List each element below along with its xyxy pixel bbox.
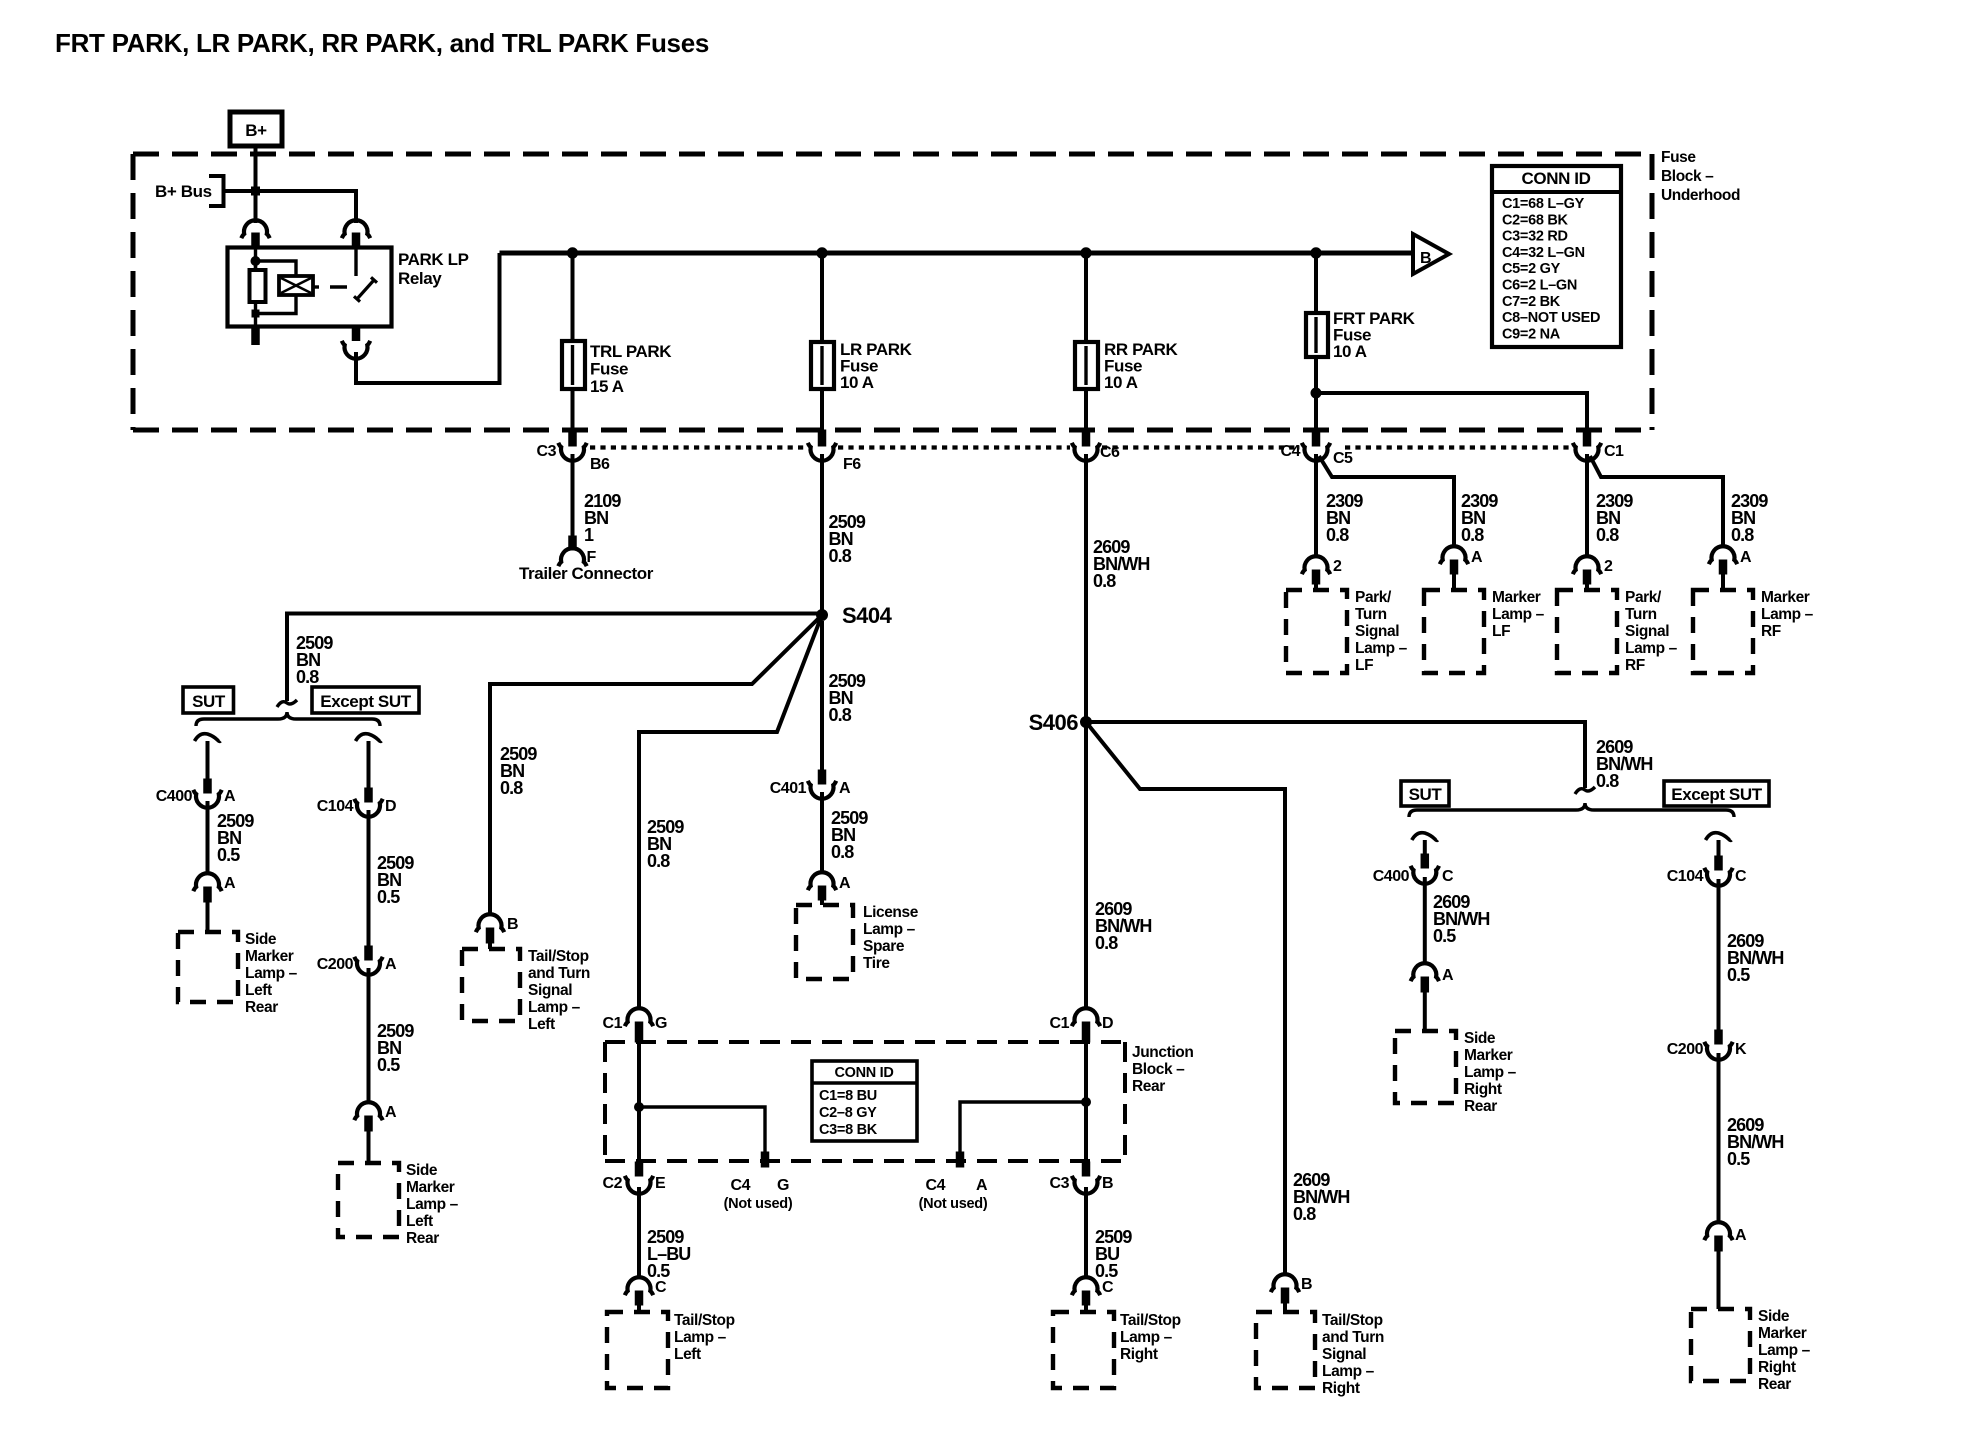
svg-text:S404: S404 bbox=[842, 603, 893, 628]
svg-text:A: A bbox=[1471, 549, 1483, 566]
svg-text:RF: RF bbox=[1761, 623, 1781, 640]
svg-text:Marker: Marker bbox=[1761, 589, 1810, 606]
junction at FRT PARK fuse bbox=[1311, 248, 1321, 258]
svg-text:B+ Bus: B+ Bus bbox=[155, 182, 212, 201]
svg-text:A: A bbox=[1442, 967, 1454, 984]
svg-text:C1: C1 bbox=[1604, 443, 1624, 460]
svg-text:C104: C104 bbox=[317, 798, 354, 815]
wire C3 to tail/stop lamp right, circuit 2509 bbox=[1084, 1187, 1088, 1279]
wire to not-used pin C4 A bbox=[960, 1102, 1086, 1153]
svg-text:Marker: Marker bbox=[1758, 1325, 1807, 1342]
relay internal: coil to switch dashed link bbox=[313, 285, 319, 288]
Except SUT option box bbox=[312, 687, 419, 713]
relay resistor R1 bbox=[254, 261, 257, 270]
junction at RR PARK fuse bbox=[1081, 248, 1091, 258]
relay switch fixed contact wire bbox=[354, 248, 357, 276]
junction in block right bbox=[1082, 1098, 1091, 1107]
svg-text:Fuse: Fuse bbox=[1661, 149, 1696, 166]
svg-text:D: D bbox=[1102, 1015, 1113, 1032]
svg-text:Turn: Turn bbox=[1355, 606, 1387, 623]
svg-text:C4: C4 bbox=[731, 1177, 751, 1194]
svg-text:PARK LP: PARK LP bbox=[398, 250, 469, 269]
connector F6 bbox=[818, 430, 826, 446]
lamp: Tail/Stop and Turn Signal Lamp - Right bbox=[1256, 1312, 1315, 1388]
svg-text:Rear: Rear bbox=[1132, 1078, 1165, 1095]
wire S404 branch to tail/stop left lamp bbox=[490, 615, 822, 916]
svg-text:CONN ID: CONN ID bbox=[1522, 169, 1591, 188]
svg-text:0.5: 0.5 bbox=[217, 845, 240, 865]
svg-text:2: 2 bbox=[1333, 558, 1342, 575]
svg-text:10 A: 10 A bbox=[840, 373, 874, 392]
junction block connector C3 pin B bbox=[1082, 1162, 1090, 1176]
relay internal: resistor bottom wire bbox=[254, 302, 257, 327]
svg-text:C: C bbox=[1102, 1279, 1114, 1296]
wire to not-used pin C4 G bbox=[639, 1107, 765, 1153]
svg-text:0.8: 0.8 bbox=[647, 851, 670, 871]
lamp: Side Marker Lamp - Right Rear (Except SUT) bbox=[1691, 1309, 1750, 1381]
wire Except SUT branch to C104 bbox=[367, 741, 371, 789]
lamp connector A bbox=[1709, 546, 1737, 564]
svg-text:0.8: 0.8 bbox=[1293, 1204, 1316, 1224]
lamp connector C bbox=[1072, 1277, 1100, 1295]
svg-text:Rear: Rear bbox=[245, 999, 278, 1016]
svg-text:B: B bbox=[1102, 1175, 1113, 1192]
lamp: Tail/Stop Lamp - Right bbox=[1053, 1312, 1114, 1388]
svg-text:Lamp –: Lamp – bbox=[1464, 1064, 1517, 1081]
wire TRL PARK fuse to connector C3 bbox=[571, 389, 575, 430]
svg-text:C401: C401 bbox=[770, 780, 807, 797]
wire S406 branch to tail/stop and turn lamp right bbox=[1086, 722, 1285, 1276]
wire C1 diagonal to marker lamp RF, circuit 2309 bbox=[1590, 456, 1723, 548]
svg-text:C2: C2 bbox=[603, 1175, 623, 1192]
lamp connector A bbox=[808, 872, 836, 890]
splice S406 bbox=[1081, 717, 1092, 728]
svg-text:Tail/Stop: Tail/Stop bbox=[1322, 1312, 1383, 1329]
wire bus to RR PARK fuse bbox=[1084, 253, 1088, 342]
svg-text:C2–8 GY: C2–8 GY bbox=[819, 1105, 877, 1121]
svg-text:10 A: 10 A bbox=[1333, 342, 1367, 361]
wire SUT branch to C400 bbox=[206, 741, 210, 780]
dotted connector strip bbox=[590, 445, 806, 449]
relay pin 3 stub (coil ground) bbox=[252, 327, 260, 345]
svg-text:Signal: Signal bbox=[1625, 623, 1669, 640]
svg-text:A: A bbox=[839, 875, 851, 892]
wire from B+ down to relay pin 1 bbox=[254, 147, 258, 223]
wire through junction block left bbox=[637, 1042, 641, 1163]
svg-text:G: G bbox=[655, 1015, 667, 1032]
svg-text:C: C bbox=[1735, 868, 1747, 885]
svg-text:S406: S406 bbox=[1029, 710, 1079, 735]
svg-text:Left: Left bbox=[674, 1346, 701, 1363]
lamp connector B bbox=[1271, 1274, 1299, 1292]
lamp connector A bbox=[1704, 1222, 1732, 1240]
svg-text:1: 1 bbox=[584, 525, 594, 545]
svg-text:C2=68 BK: C2=68 BK bbox=[1502, 212, 1569, 228]
svg-text:FRT PARK, LR PARK, RR PARK, an: FRT PARK, LR PARK, RR PARK, and TRL PARK… bbox=[55, 28, 709, 58]
svg-text:C5=2 GY: C5=2 GY bbox=[1502, 261, 1561, 277]
svg-text:Left: Left bbox=[245, 982, 272, 999]
svg-text:Trailer Connector: Trailer Connector bbox=[519, 564, 654, 583]
wire C401 to license lamp bbox=[820, 792, 824, 874]
svg-text:RF: RF bbox=[1625, 657, 1645, 674]
svg-text:B+: B+ bbox=[245, 121, 267, 140]
wire F6 to splice S404, circuit 2509 bbox=[820, 454, 824, 615]
wire FRT PARK fuse to connector C4 bbox=[1314, 357, 1318, 430]
svg-text:0.5: 0.5 bbox=[377, 1055, 400, 1075]
svg-text:C1=68 L–GY: C1=68 L–GY bbox=[1502, 196, 1585, 212]
svg-text:0.8: 0.8 bbox=[1461, 525, 1484, 545]
connector C1 (front) bbox=[1583, 430, 1591, 446]
power symbol B+ bbox=[230, 112, 282, 146]
svg-text:Lamp –: Lamp – bbox=[863, 921, 916, 938]
svg-text:0.5: 0.5 bbox=[647, 1261, 670, 1281]
svg-text:A: A bbox=[224, 788, 236, 805]
svg-text:0.8: 0.8 bbox=[1731, 525, 1754, 545]
svg-text:C200: C200 bbox=[1667, 1041, 1704, 1058]
connector C200 pin A bbox=[365, 946, 373, 960]
lamp: Marker Lamp - LF bbox=[1424, 590, 1484, 673]
svg-text:A: A bbox=[1740, 549, 1752, 566]
lamp connector A bbox=[1411, 963, 1439, 981]
svg-text:Right: Right bbox=[1464, 1081, 1502, 1098]
junction at resistor bottom bbox=[252, 310, 259, 317]
svg-text:C6: C6 bbox=[1100, 444, 1120, 461]
trailer connector terminal F bbox=[569, 536, 577, 550]
wire C104 to C200, circuit 2509 bbox=[367, 810, 371, 947]
svg-text:0.5: 0.5 bbox=[1727, 1149, 1750, 1169]
svg-text:License: License bbox=[863, 904, 919, 921]
svg-text:Park/: Park/ bbox=[1625, 589, 1662, 606]
svg-text:Except SUT: Except SUT bbox=[320, 692, 411, 711]
svg-text:Lamp –: Lamp – bbox=[1355, 640, 1408, 657]
svg-text:0.8: 0.8 bbox=[1093, 571, 1116, 591]
relay switch blade bbox=[354, 277, 377, 301]
wire relay switch output to bus bbox=[356, 253, 500, 383]
wire C2 to tail/stop lamp left, circuit 2509 bbox=[637, 1187, 641, 1279]
connector C4 / C5 bbox=[1312, 430, 1320, 446]
svg-text:A: A bbox=[224, 875, 236, 892]
relay pin 1 connector (cap) bbox=[241, 220, 269, 238]
svg-text:Rear: Rear bbox=[1758, 1376, 1791, 1393]
svg-text:C: C bbox=[655, 1279, 667, 1296]
svg-text:(Not used): (Not used) bbox=[919, 1196, 988, 1212]
svg-text:0.8: 0.8 bbox=[1596, 525, 1619, 545]
connector C104 pin C bbox=[1715, 856, 1723, 870]
svg-text:15 A: 15 A bbox=[590, 377, 624, 396]
svg-text:Lamp –: Lamp – bbox=[1761, 606, 1814, 623]
hook at right Except SUT branch bbox=[1706, 833, 1732, 841]
lamp connector A bbox=[1440, 546, 1468, 564]
relay internal: coil return wire bbox=[256, 295, 297, 314]
hook at SUT branch bbox=[195, 734, 221, 742]
lamp: License Lamp - Spare Tire bbox=[796, 905, 853, 979]
svg-text:Lamp –: Lamp – bbox=[1758, 1342, 1811, 1359]
svg-text:F6: F6 bbox=[843, 456, 861, 473]
relay internal: pin1 wire and junction bbox=[254, 248, 257, 270]
splice S404 bbox=[817, 610, 828, 621]
wire S406 right branch to SUT brace bbox=[1086, 722, 1585, 788]
junction of B+ wire and B+ Bus bbox=[252, 187, 260, 195]
svg-text:B6: B6 bbox=[590, 456, 610, 473]
wire C1 to park/turn lamp RF, circuit 2309 bbox=[1585, 454, 1589, 558]
svg-text:Lamp –: Lamp – bbox=[528, 999, 581, 1016]
svg-text:Side: Side bbox=[1464, 1030, 1496, 1047]
wire C400 to side marker lamp, circuit 2609 bbox=[1423, 877, 1427, 965]
wire right SUT branch to C400 bbox=[1423, 840, 1427, 855]
main bus wire from relay to terminal B bbox=[500, 251, 1414, 256]
SUT option box bbox=[183, 687, 234, 713]
svg-text:Left: Left bbox=[528, 1016, 555, 1033]
svg-text:C7=2 BK: C7=2 BK bbox=[1502, 294, 1561, 310]
svg-text:Relay: Relay bbox=[398, 269, 442, 288]
svg-text:Right: Right bbox=[1758, 1359, 1796, 1376]
lamp: Park/Turn Signal Lamp - LF bbox=[1286, 590, 1347, 673]
svg-text:Side: Side bbox=[406, 1162, 438, 1179]
svg-text:Lamp –: Lamp – bbox=[1492, 606, 1545, 623]
svg-text:D: D bbox=[385, 798, 396, 815]
svg-text:B: B bbox=[507, 916, 518, 933]
wire bus to TRL PARK fuse bbox=[571, 253, 575, 341]
wire C5 to marker lamp LF, circuit 2309 bbox=[1319, 456, 1454, 548]
junction block connector C1 pin G bbox=[625, 1008, 653, 1026]
junction block connector C1 pin D bbox=[1072, 1008, 1100, 1026]
svg-text:Signal: Signal bbox=[528, 982, 572, 999]
svg-text:C9=2 NA: C9=2 NA bbox=[1502, 326, 1561, 342]
wire S404 down to connector C401, circuit 2509 bbox=[820, 621, 824, 771]
fuse F3 RR PARK 10 A bbox=[1075, 342, 1098, 389]
wire C104 to C200, circuit 2609 bbox=[1717, 879, 1721, 1031]
svg-text:Rear: Rear bbox=[406, 1230, 439, 1247]
wire bus to FRT PARK fuse bbox=[1314, 253, 1318, 313]
svg-text:Junction: Junction bbox=[1132, 1044, 1193, 1061]
svg-text:A: A bbox=[1735, 1227, 1747, 1244]
lamp connector B bbox=[476, 914, 504, 932]
option brace right bbox=[1409, 803, 1734, 817]
relay pin 5 connector (cup) bbox=[352, 327, 360, 341]
svg-text:Lamp –: Lamp – bbox=[406, 1196, 459, 1213]
svg-text:0.8: 0.8 bbox=[296, 667, 319, 687]
fuse F1 TRL PARK 15 A bbox=[562, 341, 585, 389]
svg-text:10 A: 10 A bbox=[1104, 373, 1138, 392]
lamp inline connector A bbox=[193, 873, 221, 891]
svg-text:C5: C5 bbox=[1333, 450, 1353, 467]
svg-text:C3: C3 bbox=[1050, 1175, 1070, 1192]
svg-text:C4: C4 bbox=[1281, 443, 1301, 460]
relay coil L1 (box with X) bbox=[279, 276, 313, 295]
svg-text:Marker: Marker bbox=[406, 1179, 455, 1196]
svg-text:0.8: 0.8 bbox=[1095, 933, 1118, 953]
Except SUT option box right bbox=[1664, 781, 1769, 806]
svg-text:Spare: Spare bbox=[863, 938, 905, 955]
svg-text:G: G bbox=[777, 1177, 789, 1194]
connector C200 pin K bbox=[1715, 1030, 1723, 1044]
svg-text:Block –: Block – bbox=[1661, 168, 1714, 185]
svg-text:Block –: Block – bbox=[1132, 1061, 1185, 1078]
svg-text:0.8: 0.8 bbox=[1596, 771, 1619, 791]
off-page terminal arrow B bbox=[1413, 234, 1449, 274]
wire C400 to lamp, circuit 2509 bbox=[206, 801, 210, 875]
svg-text:Marker: Marker bbox=[1492, 589, 1541, 606]
svg-text:Tire: Tire bbox=[863, 955, 890, 972]
svg-text:B: B bbox=[1420, 250, 1431, 267]
relay pin 2 connector (cap) bbox=[342, 220, 370, 238]
wire through junction block right bbox=[1084, 1042, 1088, 1163]
wire right Except SUT branch to C104 bbox=[1717, 840, 1721, 857]
CONN ID table (fuse block) bbox=[1492, 166, 1621, 347]
wire C3 to trailer connector, circuit 2109 bbox=[571, 454, 575, 537]
svg-text:0.8: 0.8 bbox=[1326, 525, 1349, 545]
svg-text:0.8: 0.8 bbox=[829, 705, 852, 725]
svg-text:E: E bbox=[655, 1175, 666, 1192]
connector C400 pin C bbox=[1421, 854, 1429, 868]
lamp: Side Marker Lamp - Right Rear (SUT) bbox=[1395, 1031, 1456, 1103]
svg-text:Lamp –: Lamp – bbox=[674, 1329, 727, 1346]
connector C104 pin D bbox=[365, 788, 373, 802]
wire bus to LR PARK fuse bbox=[820, 253, 824, 342]
junction block connector C2 pin E bbox=[635, 1162, 643, 1176]
svg-text:C: C bbox=[1442, 868, 1454, 885]
svg-text:C1: C1 bbox=[1050, 1015, 1070, 1032]
svg-text:Park/: Park/ bbox=[1355, 589, 1392, 606]
svg-text:Right: Right bbox=[1120, 1346, 1158, 1363]
svg-text:0.5: 0.5 bbox=[1095, 1261, 1118, 1281]
svg-text:C6=2 L–GN: C6=2 L–GN bbox=[1502, 278, 1577, 294]
svg-text:Signal: Signal bbox=[1322, 1346, 1366, 1363]
svg-text:SUT: SUT bbox=[1409, 785, 1443, 804]
svg-text:0.5: 0.5 bbox=[377, 887, 400, 907]
svg-text:A: A bbox=[976, 1177, 988, 1194]
wire RR PARK fuse to connector C6 bbox=[1084, 389, 1088, 430]
svg-text:Marker: Marker bbox=[245, 948, 294, 965]
svg-text:K: K bbox=[1735, 1041, 1747, 1058]
svg-text:A: A bbox=[385, 956, 397, 973]
svg-text:Lamp –: Lamp – bbox=[1625, 640, 1678, 657]
svg-text:and Turn: and Turn bbox=[528, 965, 590, 982]
svg-text:0.8: 0.8 bbox=[500, 778, 523, 798]
svg-text:Right: Right bbox=[1322, 1380, 1360, 1397]
svg-text:Tail/Stop: Tail/Stop bbox=[1120, 1312, 1181, 1329]
hook at Except SUT branch bbox=[356, 734, 382, 742]
hook at right SUT branch bbox=[1412, 833, 1438, 841]
connector C6 bbox=[1082, 430, 1090, 446]
svg-text:Signal: Signal bbox=[1355, 623, 1399, 640]
lamp connector 2 bbox=[1302, 556, 1330, 574]
svg-text:C400: C400 bbox=[1373, 868, 1410, 885]
SUT option box right bbox=[1401, 781, 1449, 806]
svg-text:Rear: Rear bbox=[1464, 1098, 1497, 1115]
svg-text:C1=8 BU: C1=8 BU bbox=[819, 1088, 877, 1104]
wire S404 left branch to SUT brace bbox=[287, 614, 822, 702]
wire S406 to junction block C1 pin D bbox=[1084, 722, 1088, 1010]
svg-text:C4=32 L–GN: C4=32 L–GN bbox=[1502, 245, 1585, 261]
lamp connector 2 bbox=[1573, 556, 1601, 574]
svg-text:C4: C4 bbox=[926, 1177, 946, 1194]
svg-text:C1: C1 bbox=[603, 1015, 623, 1032]
svg-text:and Turn: and Turn bbox=[1322, 1329, 1384, 1346]
relay K1 PARK LP Relay box bbox=[228, 248, 392, 327]
svg-text:A: A bbox=[839, 780, 851, 797]
wire C4 to park/turn lamp LF, circuit 2309 bbox=[1314, 454, 1318, 558]
svg-text:Tail/Stop: Tail/Stop bbox=[528, 948, 589, 965]
junction at TRL PARK fuse bbox=[567, 248, 577, 258]
svg-text:Lamp –: Lamp – bbox=[1120, 1329, 1173, 1346]
wire LR PARK fuse to connector F6 bbox=[820, 389, 824, 430]
svg-text:C3=8 BK: C3=8 BK bbox=[819, 1122, 878, 1138]
svg-text:C3=32 RD: C3=32 RD bbox=[1502, 229, 1568, 245]
lamp: Tail/Stop and Turn Signal Lamp - Left bbox=[462, 949, 520, 1021]
svg-text:LF: LF bbox=[1492, 623, 1510, 640]
lamp: Tail/Stop Lamp - Left bbox=[607, 1312, 668, 1388]
connector C400 pin A bbox=[204, 779, 212, 793]
svg-text:CONN ID: CONN ID bbox=[834, 1065, 893, 1081]
svg-text:Underhood: Underhood bbox=[1661, 187, 1740, 204]
svg-text:Lamp –: Lamp – bbox=[245, 965, 298, 982]
junction at LR PARK fuse bbox=[817, 248, 827, 258]
svg-text:Side: Side bbox=[1758, 1308, 1790, 1325]
lamp: Park/Turn Signal Lamp - RF bbox=[1557, 590, 1617, 673]
connector C3 pin B6 bbox=[569, 430, 577, 446]
svg-text:A: A bbox=[385, 1104, 397, 1121]
CONN ID table (junction block) bbox=[812, 1061, 917, 1141]
svg-text:0.8: 0.8 bbox=[831, 842, 854, 862]
lamp: Marker Lamp - RF bbox=[1693, 590, 1753, 673]
svg-text:C8–NOT USED: C8–NOT USED bbox=[1502, 310, 1600, 326]
svg-text:Lamp –: Lamp – bbox=[1322, 1363, 1375, 1380]
lamp inline connector A bbox=[354, 1102, 382, 1120]
fuse F2 LR PARK 10 A bbox=[811, 342, 834, 389]
junction block rear dashed border bbox=[605, 1040, 1125, 1044]
svg-text:C200: C200 bbox=[317, 956, 354, 973]
junction in block left bbox=[635, 1103, 644, 1112]
junction to C1 branch bbox=[1311, 388, 1321, 398]
svg-text:C104: C104 bbox=[1667, 868, 1704, 885]
lamp: Side Marker Lamp - Left Rear (Except SUT) bbox=[338, 1163, 399, 1237]
svg-text:Except SUT: Except SUT bbox=[1671, 785, 1762, 804]
lamp connector C bbox=[625, 1277, 653, 1295]
svg-text:C3: C3 bbox=[537, 443, 557, 460]
wire B+ Bus to relay pin 2 bbox=[224, 191, 357, 223]
connector C401 pin A bbox=[818, 770, 826, 784]
svg-text:0.8: 0.8 bbox=[829, 546, 852, 566]
wire C6 to splice S406, circuit 2609 bbox=[1084, 454, 1088, 722]
svg-text:Tail/Stop: Tail/Stop bbox=[674, 1312, 735, 1329]
svg-text:Side: Side bbox=[245, 931, 277, 948]
svg-text:Turn: Turn bbox=[1625, 606, 1657, 623]
wire C200 to side marker lamp, circuit 2609 bbox=[1717, 1053, 1721, 1224]
svg-text:2: 2 bbox=[1604, 558, 1613, 575]
lamp: Side Marker Lamp - Left Rear (SUT) bbox=[178, 932, 238, 1002]
wire C200 to lamp, circuit 2509 bbox=[367, 968, 371, 1104]
fuse block underhood dashed border bbox=[133, 152, 1652, 157]
svg-text:SUT: SUT bbox=[192, 692, 226, 711]
wire S404 branch to junction block C1 pin G bbox=[639, 615, 822, 1010]
relay internal: wire to coil bbox=[256, 261, 297, 276]
svg-text:LF: LF bbox=[1355, 657, 1373, 674]
fuse F4 FRT PARK 10 A bbox=[1306, 313, 1328, 357]
svg-text:Left: Left bbox=[406, 1213, 433, 1230]
svg-text:TRL PARK: TRL PARK bbox=[590, 342, 672, 361]
svg-text:C400: C400 bbox=[156, 788, 193, 805]
svg-text:0.5: 0.5 bbox=[1433, 926, 1456, 946]
svg-text:Marker: Marker bbox=[1464, 1047, 1513, 1064]
svg-text:Fuse: Fuse bbox=[590, 360, 628, 379]
node B+ Bus bracket and label bbox=[209, 176, 224, 206]
svg-text:0.5: 0.5 bbox=[1727, 965, 1750, 985]
svg-text:(Not used): (Not used) bbox=[724, 1196, 793, 1212]
option brace bbox=[196, 712, 380, 726]
wire break squiggle above brace bbox=[277, 700, 297, 707]
wire branch to connector C1 bbox=[1316, 393, 1587, 430]
